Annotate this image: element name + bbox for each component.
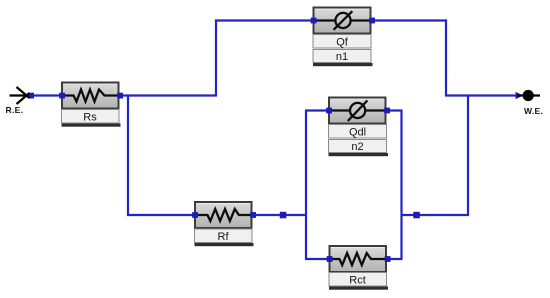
CPE Qdl (326, 98, 390, 157)
svg-text:W.E.: W.E. (524, 106, 543, 116)
CPE Qf (311, 8, 375, 67)
wire Rs to top-branch corner (119, 94, 216, 96)
wire Rct to right rail (386, 258, 403, 260)
wire stub left rail to Qdl (305, 109, 328, 111)
svg-text:n2: n2 (351, 141, 363, 153)
wire R.E. to Rs (31, 94, 62, 96)
wire Qdl to right rail (386, 109, 403, 111)
svg-text:n1: n1 (336, 51, 348, 63)
terminal R.E. (6, 87, 30, 115)
svg-text:Rct: Rct (349, 275, 366, 287)
resistor Rct (327, 246, 391, 290)
terminal W.E. (517, 90, 543, 116)
svg-text:Qf: Qf (336, 37, 349, 49)
resistor Rf (192, 202, 256, 246)
svg-text:R.E.: R.E. (6, 105, 24, 115)
wire stub left rail to Rct (305, 258, 329, 260)
wire right rail of Qdl/Rct parallel pair (400, 111, 402, 260)
junction node on parallel-section output wire (413, 212, 420, 219)
svg-text:Rs: Rs (83, 112, 97, 124)
wire arrowhead at W.E. (516, 92, 524, 99)
wire left rail of Qdl/Rct parallel pair (305, 111, 307, 260)
svg-text:Rf: Rf (218, 231, 230, 243)
node at R.E. wire start (28, 93, 34, 99)
resistor Rs (59, 83, 123, 127)
wire lower branch down from main line to Rf (128, 95, 195, 216)
junction node on Rf output wire (280, 212, 287, 219)
wire top branch up and across to Qf (216, 21, 313, 97)
wire output rail to W.E. (445, 94, 518, 96)
svg-text:Qdl: Qdl (349, 127, 366, 139)
wire parallel section to output rail (401, 96, 469, 216)
wire Rf to parallel left rail (251, 214, 307, 216)
wire Qf to right down-corner (371, 21, 446, 97)
